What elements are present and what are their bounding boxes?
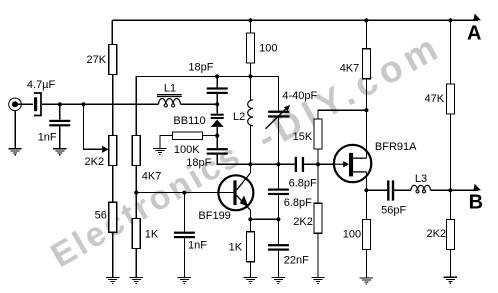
wire emitter node to 1K mid — [249, 219, 251, 231]
wire tank top: 4K7 column to varicap column to tank node — [136, 76, 278, 135]
wire 2K2 mid to ground — [317, 233, 319, 277]
wire source node to 56pF — [366, 189, 387, 191]
wire base node to BF199 base — [136, 192, 233, 194]
svg-text:6.8pF: 6.8pF — [284, 197, 312, 209]
trimmer 2K2 wiper arrow — [102, 146, 108, 153]
label 18pF upper — [188, 62, 213, 74]
wire B node to 2K2 right — [449, 190, 451, 219]
junction node rail-100 — [248, 18, 252, 22]
wire emitter node to 22nF node — [250, 218, 278, 220]
junction node tank top — [248, 74, 252, 78]
label 56 — [95, 210, 107, 222]
wire 1K mid to ground — [249, 262, 251, 278]
label 4K7 left — [142, 170, 162, 182]
svg-text:BB110: BB110 — [173, 115, 205, 127]
label 4.7uF — [27, 79, 56, 91]
svg-text:L1: L1 — [164, 82, 176, 94]
wire bias row 15K top corner — [318, 110, 366, 119]
wire L1 right to node varicap column — [180, 103, 217, 105]
junction node output B — [448, 188, 452, 192]
ground 1nF input — [53, 148, 66, 155]
capacitor 22nF — [268, 244, 289, 251]
wire 18pF cap to L1 node — [216, 94, 218, 114]
wire tank-top node to 18pF top cap — [216, 76, 218, 87]
junction node rail-4K7R — [364, 18, 368, 22]
wire 1nF input cap to ground — [59, 127, 61, 149]
label L3 — [415, 173, 427, 185]
svg-text:1nF: 1nF — [38, 131, 57, 143]
junction node base left — [134, 191, 138, 195]
svg-text:100K: 100K — [174, 144, 200, 156]
label 4K7 right — [340, 62, 360, 74]
svg-text:4.7µF: 4.7µF — [27, 79, 56, 91]
svg-text:BFR91A: BFR91A — [375, 141, 417, 153]
svg-text:15K: 15K — [293, 131, 313, 143]
resistor 1K mid — [246, 232, 254, 262]
varicap diode BB110 — [211, 114, 224, 127]
ground 2K2 right — [444, 277, 457, 284]
inductor L2 — [248, 100, 253, 126]
resistor 4K7 right — [362, 49, 370, 79]
junction node input-trimmer — [81, 102, 85, 106]
svg-text:56pF: 56pF — [381, 204, 406, 216]
wire 27K top lead from rail corner — [111, 20, 113, 44]
wire node to 1nF input cap — [59, 104, 61, 119]
wire rail to 4K7 right — [365, 20, 367, 48]
wire C1 to L1 (input line) — [42, 103, 159, 105]
resistor 100K horizontal — [173, 132, 203, 140]
inductor L1 with core — [157, 95, 182, 107]
resistor 47K — [446, 84, 454, 114]
wire tank node to L2 top — [249, 76, 251, 100]
wire collector node right to 6.8pF series cap — [250, 163, 294, 165]
wire 4K7 right bottom to drain of BFR91A — [365, 79, 367, 159]
label output A — [467, 23, 481, 45]
connector J1 input jack — [9, 98, 22, 111]
resistor 27K — [109, 45, 117, 75]
svg-text:18pF: 18pF — [188, 62, 213, 74]
junction node 4-40pF/6.8pF — [276, 162, 280, 166]
label 100 top — [259, 43, 277, 55]
ground input jack — [8, 148, 21, 155]
junction node input-1nF — [58, 102, 62, 106]
inductor L3 — [411, 185, 431, 193]
wire L3 to B node and arrow — [430, 189, 478, 191]
ground 2K2 mid — [311, 277, 324, 284]
svg-text:BF199: BF199 — [198, 210, 230, 222]
output arrow A — [473, 14, 481, 21]
wire top supply rail — [112, 19, 478, 21]
label BF199 — [198, 210, 230, 222]
label 18pF lower — [186, 157, 211, 169]
transistor Q1 BF199 — [218, 173, 253, 210]
wire 4-40pF bottom through node to 6.8pF shunt cap — [277, 118, 279, 189]
wire 100 bottom resistor to ground — [365, 249, 367, 277]
label 1nF input — [38, 131, 57, 143]
resistor 1K left — [132, 219, 140, 249]
label 6.8pF lower — [284, 197, 312, 209]
svg-text:22nF: 22nF — [284, 254, 309, 266]
wire 15K bottom to gate node to 2K2 mid top — [317, 149, 319, 203]
resistor 56 — [109, 202, 117, 232]
label 1K mid — [229, 242, 243, 254]
label 4-40pF — [282, 90, 317, 102]
svg-text:1K: 1K — [145, 228, 159, 240]
junction node rail-47K — [448, 18, 452, 22]
trimmer resistor 2K2 — [109, 135, 117, 165]
svg-text:56: 56 — [95, 210, 107, 222]
label 56pF — [381, 204, 406, 216]
junction node emitter-22nF — [276, 217, 280, 221]
label 2K2 right — [427, 228, 447, 240]
capacitor 18pF lower — [207, 148, 228, 155]
capacitor 6.8pF shunt — [268, 189, 289, 196]
wire 1nF mid cap to ground — [183, 238, 185, 277]
wire 27K bottom to trimmer 2K2 top — [112, 75, 114, 136]
label L2 — [233, 111, 245, 123]
wire 100K left lead and ground drop — [160, 136, 173, 149]
svg-text:6.8pF: 6.8pF — [289, 178, 317, 190]
junction node varicap-100K — [215, 134, 219, 138]
resistor 15K — [314, 119, 322, 149]
wire input jack to C1 — [18, 103, 33, 105]
wire 56 bottom to ground — [112, 232, 114, 277]
label 47K — [425, 93, 445, 105]
svg-text:1K: 1K — [229, 242, 243, 254]
label 2K2 mid — [293, 216, 313, 228]
junction node base-1nF — [182, 191, 186, 195]
capacitor 56pF — [387, 180, 394, 200]
wire 100K right lead to varicap node — [203, 135, 218, 137]
wire collector node stub to BF199 collector — [249, 164, 251, 173]
resistor 4K7 left — [132, 135, 140, 165]
wire trimmer bottom to 56 top — [112, 165, 114, 202]
capacitor 1nF input — [49, 120, 70, 127]
svg-text:B: B — [469, 191, 483, 213]
wire BB110 to 100K node — [216, 127, 218, 148]
svg-text:2K2: 2K2 — [427, 228, 447, 240]
svg-text:47K: 47K — [425, 93, 445, 105]
ground 1nF mid — [178, 277, 191, 284]
wire BF199 emitter stub to emitter node — [249, 210, 251, 219]
wire 6.8pF series cap to gate node — [304, 163, 334, 165]
junction node bias row — [364, 108, 368, 112]
label 1K left — [145, 228, 159, 240]
label BFR91A — [375, 141, 417, 153]
ground 100K — [153, 148, 166, 155]
svg-text:27K: 27K — [87, 54, 107, 66]
wire 2K2 right to ground — [449, 249, 451, 277]
svg-text:L3: L3 — [415, 173, 427, 185]
resistor 2K2 mid — [314, 203, 322, 233]
svg-text:1nF: 1nF — [188, 239, 207, 251]
wire base node to 1nF mid cap — [183, 193, 185, 232]
label L1 — [164, 82, 176, 94]
wire 18pF lower cap to collector node — [217, 155, 250, 165]
wire 47K bottom to B node — [449, 114, 451, 190]
svg-text:18pF: 18pF — [186, 157, 211, 169]
capacitor 1nF mid — [174, 232, 195, 239]
junction node tank top left — [215, 74, 219, 78]
svg-text:100: 100 — [259, 43, 277, 55]
label 1nF mid — [188, 239, 207, 251]
label 100K — [174, 144, 200, 156]
svg-text:A: A — [467, 23, 481, 45]
svg-text:2K2: 2K2 — [85, 156, 105, 168]
ground 1K left — [130, 277, 143, 284]
wire 22nF to ground — [277, 250, 279, 277]
svg-text:2K2: 2K2 — [293, 216, 313, 228]
label 15K — [293, 131, 313, 143]
label 100 bottom — [343, 229, 361, 241]
svg-text:4K7: 4K7 — [142, 170, 162, 182]
wire rail to 47K — [449, 20, 451, 84]
junction node source — [364, 188, 368, 192]
resistor 100 top — [246, 33, 254, 63]
svg-text:L2: L2 — [233, 111, 245, 123]
watermark Electronics-DIY.com — [45, 25, 450, 275]
capacitor 6.8pF series — [295, 157, 304, 172]
wire L2 bottom to collector node — [249, 126, 251, 165]
ground 1K mid — [244, 277, 257, 284]
label 2K2 trimmer — [85, 156, 105, 168]
junction node emitter — [248, 217, 252, 221]
svg-text:4-40pF: 4-40pF — [282, 90, 317, 102]
wire 1K left bottom to ground — [135, 249, 137, 278]
wire 4K7 bottom to base node to 1K top — [135, 165, 137, 218]
wire BFR91A source down to output node — [365, 172, 367, 190]
junction node L1-varicap — [215, 102, 219, 106]
label BB110 — [173, 115, 205, 127]
wire output node to 100 bottom resistor — [365, 190, 367, 219]
svg-text:100: 100 — [343, 229, 361, 241]
ground 22nF — [272, 277, 285, 284]
resistor 2K2 right — [446, 219, 454, 249]
capacitor C1 4.7uF electrolytic — [34, 93, 41, 116]
wire 56pF to L3 — [394, 189, 411, 191]
wire rail to 100 top resistor — [249, 20, 251, 33]
wire 6.8pF shunt cap to emitter row to 22nF — [277, 195, 279, 244]
label output B — [469, 191, 483, 213]
capacitor 18pF upper — [207, 87, 228, 94]
junction node collector — [248, 162, 252, 166]
transistor Q2 BFR91A — [334, 145, 371, 182]
wire input jack to ground — [14, 111, 16, 149]
resistor 100 bottom — [362, 219, 370, 249]
junction node gate — [316, 162, 320, 166]
output arrow B — [473, 184, 481, 191]
wire 100 resistor to tank node — [249, 63, 251, 76]
ground 100 bottom — [360, 277, 373, 284]
label 22nF — [284, 254, 309, 266]
label 6.8pF upper — [289, 178, 317, 190]
svg-text:4K7: 4K7 — [340, 62, 360, 74]
wire input node down to trimmer wiper — [83, 104, 101, 149]
ground 56 — [106, 277, 119, 284]
variable capacitor 4-40pF — [266, 105, 291, 129]
label 27K — [87, 54, 107, 66]
